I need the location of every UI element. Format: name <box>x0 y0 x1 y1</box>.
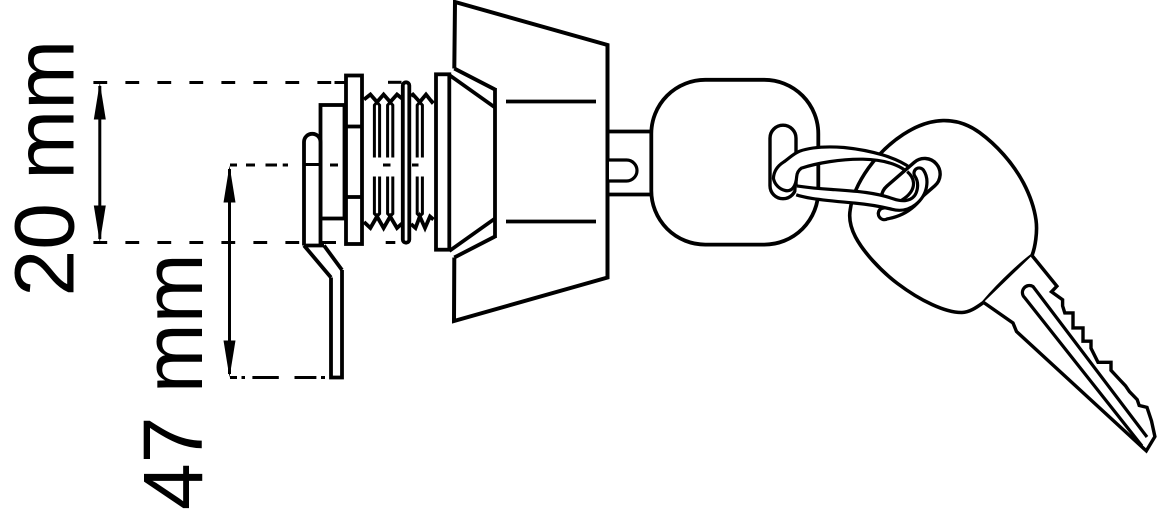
body inner bottom line <box>506 220 596 224</box>
key 2 head <box>850 121 1037 313</box>
lock body (flared housing) <box>454 2 608 321</box>
rear housing between cam and nut <box>321 105 345 219</box>
key 2 blade <box>984 256 1155 451</box>
key 1 slot <box>770 125 796 199</box>
thread bottom left zigzag <box>364 217 402 229</box>
flange rect <box>436 74 449 249</box>
centerline dashes over cam and housing <box>303 163 338 167</box>
cone top diagonals <box>454 69 495 90</box>
key blade tab <box>609 160 637 181</box>
thread top left zigzag <box>364 95 402 103</box>
key 1 head <box>651 80 818 245</box>
cam crease <box>304 244 324 248</box>
svg-text:20 mm: 20 mm <box>0 40 92 297</box>
thread root fingers <box>374 102 422 216</box>
key ring top band end curl <box>878 169 925 219</box>
thread bottom right zigzag <box>411 217 434 229</box>
body inner top line <box>506 100 596 104</box>
svg-text:47 mm: 47 mm <box>126 253 220 510</box>
nut <box>346 76 362 245</box>
cone bottom diagonals <box>454 237 495 258</box>
extension line bottom of 20mm (y=242.5) <box>93 241 395 244</box>
washer (rounded thin bar) <box>403 82 410 242</box>
key 2 blade groove <box>1022 286 1147 446</box>
cone front edge vertical <box>493 88 497 238</box>
key blade between lock and key 1 <box>608 130 652 134</box>
dimension line 20 mm with arrows <box>94 83 106 243</box>
key ring bottom band <box>796 168 927 210</box>
key ring top band <box>773 147 922 219</box>
cam lever lower bar <box>331 270 342 378</box>
cam bend diagonals <box>304 246 331 278</box>
thread top right zigzag <box>411 95 434 103</box>
cam lever upper bar <box>304 134 321 246</box>
extension line top (y=82.5) <box>93 81 401 84</box>
dash-dot line at cam tip (y=377.5) <box>230 376 325 379</box>
key 2 slot <box>875 152 946 220</box>
nut facet lines <box>346 125 362 129</box>
dimension line 47 mm with arrows <box>224 166 236 378</box>
centerline (y=165.5) <box>230 163 419 167</box>
